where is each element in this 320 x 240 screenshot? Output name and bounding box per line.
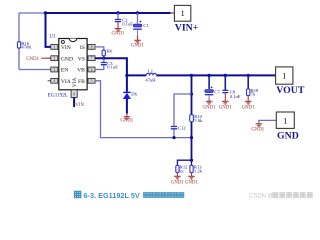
- svg-text:EN: EN: [61, 68, 68, 74]
- wire: GND connector to ground: [259, 120, 276, 122]
- op chip U1 EG1192L: [48, 34, 87, 98]
- svg-text:D6: D6: [131, 92, 137, 97]
- svg-text:GND: GND: [277, 130, 299, 141]
- svg-text:GND1: GND1: [242, 106, 255, 111]
- wire: C12 bottom to FB net: [173, 129, 175, 137]
- svg-text:GND1: GND1: [120, 118, 133, 123]
- svg-text:GND1: GND1: [112, 31, 125, 36]
- node junction VS/R6/C3: [102, 57, 105, 60]
- svg-text:VIA: VIA: [61, 79, 71, 85]
- svg-text:C1: C1: [143, 23, 149, 28]
- capacitor C8 0.1uF: [222, 75, 241, 99]
- svg-text:GND1: GND1: [251, 127, 264, 132]
- wire: C12 branch top: [174, 94, 192, 126]
- node junction C12 branch: [190, 92, 193, 95]
- caption: 图 6-3. EG1192L 5V 输出典型应用图: [75, 191, 81, 197]
- svg-text:VIN+: VIN+: [175, 22, 199, 33]
- svg-text:7: 7: [91, 57, 93, 61]
- node junction rail/C8: [224, 74, 227, 77]
- node junction FB/C12: [172, 136, 175, 139]
- wire: FB net from pin5: [95, 81, 192, 138]
- svg-text:GND1: GND1: [131, 43, 144, 48]
- wire: thick feedback column to R10: [191, 75, 193, 114]
- svg-text:0.1uF: 0.1uF: [107, 64, 118, 69]
- svg-text:6-3. EG1192L 5V: 6-3. EG1192L 5V: [84, 191, 140, 200]
- svg-text:VOUT: VOUT: [276, 85, 305, 96]
- capacitor C7 electrolytic: [205, 75, 221, 94]
- ground GND1 under D6: [120, 114, 133, 124]
- resistor R16: [17, 41, 32, 50]
- svg-text:IS: IS: [80, 45, 85, 51]
- ground GND1 under C8: [219, 93, 232, 111]
- svg-text:nc: nc: [180, 169, 184, 174]
- resistor R10 5.6k: [190, 114, 203, 123]
- pin 4 box: [48, 78, 58, 83]
- resistor R13 1.2k: [190, 165, 203, 174]
- wire: left vertical through R16 down to EN: [19, 13, 51, 70]
- svg-text:C12: C12: [178, 125, 186, 130]
- node junction rail/R18: [247, 74, 250, 77]
- svg-text:5.6k: 5.6k: [194, 118, 203, 123]
- wire: C3 to VB pin: [95, 65, 104, 69]
- wire: thick VIN top rail: [46, 12, 171, 14]
- pin 8 box: [88, 45, 95, 50]
- svg-text:GND1: GND1: [219, 106, 232, 111]
- wire: pad stub + net label VIN: [74, 98, 84, 109]
- wire: thick VOUT rail after L1: [156, 74, 275, 76]
- svg-text:3: 3: [53, 68, 55, 72]
- capacitor C3 0.1uF: [101, 58, 118, 69]
- ground GND1 under C2: [112, 22, 125, 36]
- capacitor C2 0.1uF: [115, 11, 133, 26]
- node junction VS/D6/L1: [125, 74, 128, 77]
- ground GND1 under C1: [131, 30, 144, 48]
- svg-text:VB: VB: [77, 68, 85, 74]
- wire: thin top-left horizontal to junction: [19, 12, 46, 14]
- svg-text:1: 1: [53, 45, 55, 49]
- wire: thick R10 down to divider: [191, 122, 193, 160]
- ground GND1 under R13: [185, 173, 198, 186]
- node junction top rail at x45.5: [44, 11, 47, 14]
- svg-text:CSDN @: CSDN @: [249, 194, 274, 200]
- inductor L1 47uH: [145, 69, 156, 83]
- svg-text:1: 1: [283, 115, 287, 125]
- wire: thick VS from pin7: [95, 58, 127, 75]
- capacitor C1 electrolytic: [133, 11, 149, 29]
- svg-text:U1: U1: [49, 34, 56, 39]
- ground GND1 under R12: [171, 173, 184, 186]
- svg-text:0.1uF: 0.1uF: [230, 94, 241, 99]
- svg-text:5: 5: [91, 79, 93, 83]
- svg-text:2: 2: [53, 57, 55, 61]
- svg-text:8: 8: [91, 45, 93, 49]
- node junction divider: [190, 159, 193, 162]
- net label GND1 at pin 2: [26, 57, 51, 62]
- svg-text:GND1: GND1: [171, 180, 184, 185]
- diode D6: [123, 75, 137, 113]
- pin 6 box: [88, 67, 95, 72]
- svg-text:47uH: 47uH: [145, 78, 156, 83]
- connector J VOUT: [276, 67, 305, 96]
- svg-text:VIN: VIN: [75, 103, 84, 108]
- pin 9 pad: [71, 90, 77, 98]
- svg-text:470K: 470K: [21, 45, 32, 50]
- svg-text:R6: R6: [107, 49, 113, 54]
- pin 7 box: [88, 56, 95, 61]
- node junction rail/R10: [190, 74, 193, 77]
- svg-text:GND1: GND1: [203, 106, 216, 111]
- svg-text:7k: 7k: [251, 92, 256, 97]
- pin 1 box: [51, 45, 58, 50]
- wire: R6 to VS rail: [103, 56, 105, 58]
- resistor R12: [176, 165, 188, 174]
- svg-text:GND1: GND1: [26, 57, 39, 62]
- svg-text:GND: GND: [61, 56, 73, 62]
- wire: R13 stub: [191, 160, 193, 165]
- pin 3 box: [51, 67, 58, 72]
- svg-text:C7: C7: [214, 89, 220, 94]
- svg-text:EG1192L: EG1192L: [48, 92, 68, 98]
- node junction FB/R10: [190, 136, 193, 139]
- capacitor C12: [171, 125, 186, 130]
- svg-text:L1: L1: [148, 69, 154, 74]
- connector J GND: [276, 112, 298, 141]
- ground GND1 at connector: [251, 123, 264, 133]
- ground GND1 under C7: [203, 95, 216, 110]
- connector J VIN+: [171, 5, 199, 33]
- svg-text:VIA: VIA: [72, 78, 78, 88]
- svg-text:1: 1: [282, 71, 286, 81]
- pin 2 box: [48, 56, 58, 61]
- svg-text:1: 1: [180, 8, 184, 18]
- wire: thick rail to L1: [127, 74, 146, 76]
- svg-text:6: 6: [91, 68, 93, 72]
- svg-text:9: 9: [73, 92, 75, 96]
- svg-text:VS: VS: [78, 56, 85, 62]
- svg-text:0.1uF: 0.1uF: [122, 22, 133, 27]
- resistor R6: [102, 49, 113, 56]
- svg-text:4: 4: [53, 79, 55, 83]
- ground GND1 under R18: [242, 96, 255, 111]
- wire: thick drop from rail to pin1 VIN: [46, 13, 51, 47]
- svg-text:1.2k: 1.2k: [194, 169, 203, 174]
- node junction rail/C7: [207, 74, 210, 77]
- resistor R18 7k: [247, 75, 260, 96]
- wire: divider branch to R12: [177, 160, 191, 165]
- wire: IS pin to R6: [95, 47, 104, 50]
- pin 5 box: [88, 78, 95, 83]
- svg-text:GND1: GND1: [185, 180, 198, 185]
- svg-text:FB: FB: [78, 79, 85, 85]
- svg-text:VIN: VIN: [61, 45, 71, 51]
